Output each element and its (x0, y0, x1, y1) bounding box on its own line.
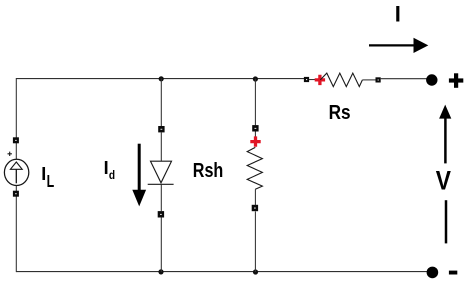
output node bottom (427, 267, 439, 279)
svg-text:Rs: Rs (329, 102, 351, 124)
Rs plus polarity mark red (315, 75, 325, 85)
Rs left terminal (304, 77, 309, 82)
wire left branch upper (15, 78, 17, 138)
wire current source bottom stub (15, 185, 17, 191)
wire Rsh branch lower (254, 189, 256, 205)
junction node bottom diode (158, 269, 163, 274)
output node top (426, 74, 437, 85)
Rsh top terminal (252, 125, 258, 131)
Rsh zigzag (247, 147, 262, 189)
junction node top Rsh (253, 76, 258, 81)
diode bottom terminal (158, 211, 164, 217)
Rsh bottom terminal (252, 205, 258, 211)
voltage arrow V upper (439, 105, 451, 164)
current source U1 (4, 137, 28, 196)
wire Rs to output (381, 78, 427, 80)
wire bottom rail (16, 271, 427, 273)
Rsh plus polarity mark red (250, 136, 260, 146)
diode top terminal (158, 126, 164, 132)
diode cathode bar (148, 183, 174, 185)
voltage arrow V lower (445, 200, 448, 243)
wire left branch lower (15, 196, 17, 272)
current source arrow shaft (15, 169, 17, 183)
label IL (41, 164, 54, 191)
wire Rsh branch upper (254, 79, 256, 126)
Rs wire into plus (309, 79, 316, 81)
svg-text:I: I (104, 158, 109, 178)
current source arrow open head (10, 162, 22, 169)
junction node top diode (159, 76, 164, 81)
svg-text:I: I (395, 2, 401, 27)
svg-text:I: I (41, 164, 46, 184)
resistor Rs (304, 73, 381, 87)
current arrow I (369, 38, 428, 53)
wire diode branch upper (160, 79, 162, 126)
current source plus polarity mark (8, 152, 12, 156)
label minus terminal (449, 271, 457, 275)
current source top terminal (13, 137, 19, 143)
current arrow Id (132, 144, 146, 207)
Rs wire zigzag to right terminal (362, 79, 375, 81)
Rs right terminal (376, 77, 381, 82)
wire current source top stub (15, 143, 17, 160)
diode D1 (148, 126, 174, 218)
current source circle (4, 159, 28, 185)
resistor Rsh (247, 125, 262, 211)
wire diode to anode (160, 133, 162, 162)
wire diode branch lower (160, 184, 162, 211)
svg-text:Rsh: Rsh (193, 159, 224, 182)
label plus terminal (449, 73, 463, 88)
current source bottom terminal (13, 191, 19, 197)
wire top rail (16, 78, 305, 80)
svg-text:V: V (436, 165, 451, 195)
Rs zigzag (320, 73, 362, 87)
junction node bottom Rsh (253, 269, 258, 274)
svg-text:L: L (47, 171, 55, 191)
label Id (104, 158, 116, 182)
diode triangle (151, 161, 172, 183)
svg-text:d: d (109, 168, 115, 182)
